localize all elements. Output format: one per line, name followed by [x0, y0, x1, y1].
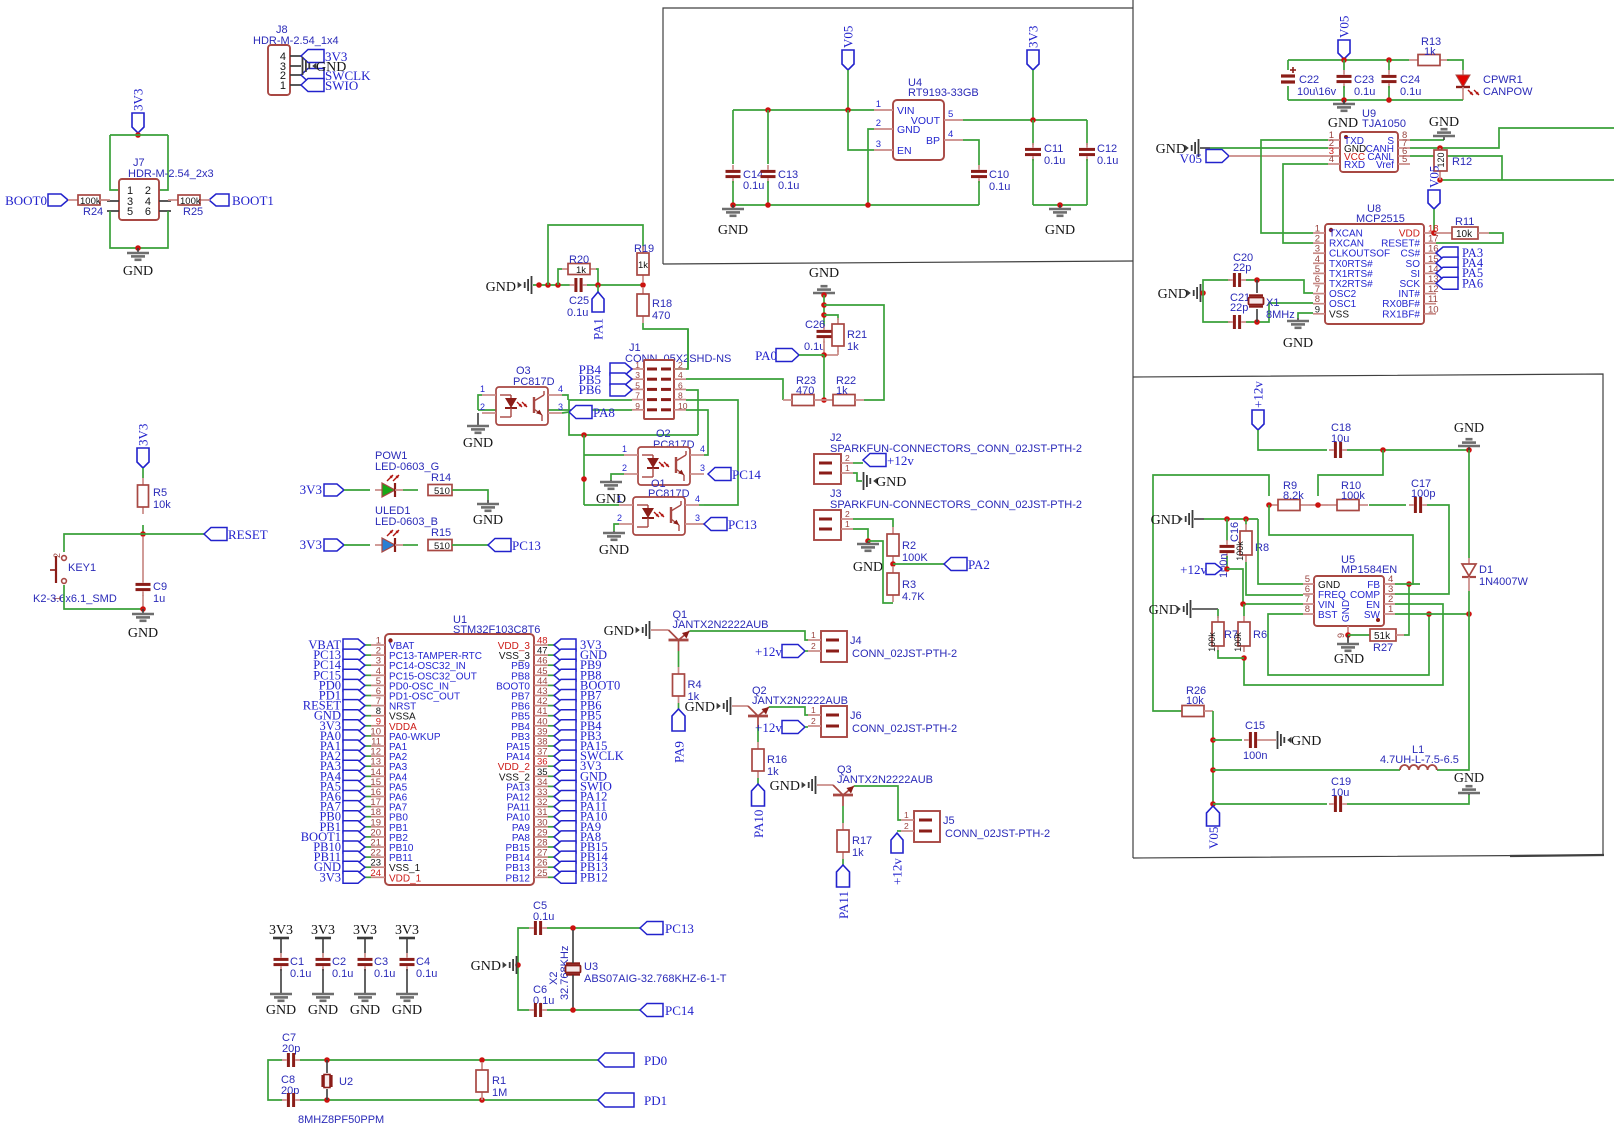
ground at C19: [1454, 771, 1484, 795]
svg-text:PA8: PA8: [593, 405, 615, 420]
wire FB right: [1395, 583, 1420, 585]
wire: [110, 211, 168, 248]
svg-text:C26: C26: [805, 319, 825, 331]
wire: [824, 315, 838, 320]
svg-text:GND: GND: [486, 280, 516, 295]
capacitor C11 0.1u: [1025, 120, 1065, 205]
svg-text:2: 2: [811, 716, 816, 726]
svg-text:24: 24: [370, 868, 381, 879]
net flag PC13 at R15: [488, 538, 541, 553]
wire +12v to VIN: [1227, 569, 1303, 604]
svg-text:3V3: 3V3: [136, 424, 151, 446]
junction: [765, 202, 771, 208]
net flag PA15 at U1 pin 38: [548, 739, 607, 753]
capacitor C26 0.1u: [804, 319, 832, 353]
wire BST loop: [1268, 614, 1429, 675]
net flag PA6 at U1 pin 16: [320, 790, 371, 804]
capacitor C10 0.1u: [971, 165, 1010, 205]
net flag PB14 at U1 pin 27: [548, 850, 609, 864]
svg-text:V05: V05: [1180, 151, 1202, 166]
svg-text:5: 5: [127, 206, 133, 218]
svg-text:GND: GND: [1454, 771, 1484, 786]
wire FB loop: [1269, 505, 1413, 584]
connector J6 CONN_02JST-PTH-2: [808, 705, 957, 737]
svg-text:1: 1: [811, 630, 816, 640]
svg-text:1: 1: [811, 705, 816, 715]
svg-text:1k: 1k: [767, 766, 779, 778]
power flag 3V3 above J7: [131, 89, 146, 133]
svg-text:51k: 51k: [1374, 631, 1391, 642]
wire R27 to FB: [1404, 584, 1409, 635]
svg-text:PA9: PA9: [672, 741, 687, 763]
ground at Q2 base: [685, 697, 731, 715]
junction: [821, 397, 827, 403]
svg-text:R20: R20: [569, 254, 589, 266]
ground at J8 pin 3: [303, 57, 347, 75]
junction: [1210, 801, 1216, 807]
svg-text:C4: C4: [416, 956, 430, 968]
net flag PA3 at U1 pin 13: [320, 759, 371, 773]
svg-text:GND: GND: [266, 1003, 296, 1018]
svg-text:0.1u: 0.1u: [374, 968, 395, 980]
junction: [821, 312, 827, 318]
diode D1 1N4007W: [1462, 450, 1529, 614]
net flag PD1: [598, 1093, 667, 1108]
net flag PA10 at U1 pin 31: [548, 810, 607, 824]
optocoupler O1 PC817D: [633, 478, 690, 535]
U1 pin 2 PC13-TAMPER-RTC: [371, 646, 482, 663]
U1 pin 37 PA14: [506, 747, 548, 764]
svg-text:2: 2: [480, 402, 485, 412]
junction: [479, 1057, 485, 1063]
net flag PB10 at U1 pin 21: [313, 840, 371, 854]
resistor R14 510: [428, 472, 452, 497]
svg-text:RT9193-33GB: RT9193-33GB: [908, 87, 979, 99]
net flag GND at U1 pin 35: [548, 769, 607, 783]
svg-text:1: 1: [480, 384, 485, 394]
svg-text:PC13: PC13: [512, 538, 541, 553]
wire SW node down to L1: [1437, 614, 1469, 770]
net flag PA6 at U8: [1436, 276, 1483, 290]
ground at crystal X1: [1158, 284, 1201, 302]
junction: [1210, 767, 1216, 773]
ground below C23: [1328, 100, 1358, 131]
wire: [344, 544, 370, 546]
svg-text:1: 1: [845, 519, 850, 529]
capacitor C6 0.1u: [529, 984, 554, 1017]
svg-text:3V3: 3V3: [269, 923, 293, 938]
svg-text:SPARKFUN-CONNECTORS_CONN_02JST: SPARKFUN-CONNECTORS_CONN_02JST-PTH-2: [830, 443, 1082, 455]
ground at C18: [1454, 421, 1484, 450]
svg-text:20p: 20p: [281, 1085, 299, 1097]
wire: [1347, 795, 1469, 804]
U1 pin 48 VDD_3: [498, 636, 548, 653]
svg-text:10k: 10k: [153, 499, 171, 511]
svg-text:470: 470: [796, 385, 814, 397]
net flag 3V3 at U1 pin 36: [548, 759, 602, 773]
svg-text:LED-0603_B: LED-0603_B: [375, 516, 438, 528]
svg-text:4.7K: 4.7K: [902, 591, 925, 603]
wire: [1369, 504, 1406, 506]
wire ground rail: [733, 204, 979, 206]
svg-text:J6: J6: [850, 710, 862, 722]
wire: [584, 454, 624, 456]
wire: [1212, 711, 1214, 804]
ground at O3 pin 2: [463, 413, 493, 451]
svg-text:8: 8: [678, 391, 683, 401]
svg-text:2: 2: [845, 509, 850, 519]
svg-text:GND: GND: [123, 264, 153, 279]
svg-text:BOOT1: BOOT1: [232, 193, 274, 208]
net flag PD0: [598, 1053, 667, 1068]
wire: [452, 490, 488, 500]
svg-text:R12: R12: [1452, 156, 1472, 168]
ground below C9: [128, 609, 158, 641]
svg-text:PC13: PC13: [665, 921, 694, 936]
wire: [699, 504, 704, 506]
svg-text:V05: V05: [841, 26, 856, 48]
svg-text:1k: 1k: [847, 341, 859, 353]
wire from J1 pin 10: [686, 410, 708, 455]
svg-text:Vref: Vref: [1376, 160, 1394, 171]
wire: [344, 489, 370, 491]
junction: [1341, 97, 1347, 103]
svg-text:3: 3: [558, 402, 563, 412]
wire from J1 pin 6: [686, 390, 698, 435]
junction: [479, 1097, 485, 1103]
junction: [1241, 655, 1247, 661]
junction: [536, 282, 542, 288]
wire: [1318, 450, 1383, 496]
resistor R3 4.7K: [887, 566, 925, 603]
svg-text:8MHZ8PF50PPM: 8MHZ8PF50PPM: [298, 1114, 384, 1126]
svg-text:+12v: +12v: [1180, 562, 1207, 577]
junction: [865, 538, 871, 544]
wire: [583, 435, 585, 505]
svg-text:U3: U3: [584, 961, 598, 973]
resistor R6 100k: [1233, 604, 1267, 652]
wire C15 row: [1213, 739, 1242, 741]
net flag SWCLK at J8 pin 2: [301, 68, 371, 83]
U1 pin 8 VSSA: [371, 706, 416, 723]
wire left loop: [1153, 475, 1269, 711]
wire: [478, 395, 482, 410]
wire VIN rail: [733, 109, 874, 111]
junction: [515, 962, 521, 968]
net flag PA12 at U1 pin 33: [548, 790, 607, 804]
svg-text:5: 5: [948, 109, 953, 120]
net flag PA9 at U1 pin 30: [548, 820, 601, 834]
net flag PB13 at U1 pin 26: [548, 860, 608, 874]
resistor R25 100k: [168, 195, 210, 218]
svg-text:GND: GND: [770, 779, 800, 794]
power 3V3 above C4: [395, 923, 419, 953]
svg-text:1k: 1k: [576, 265, 586, 276]
junction: [1466, 611, 1472, 617]
net flag PC14 at U1 pin 3: [313, 658, 371, 672]
optocoupler O2 PC817D: [638, 428, 695, 485]
wire from J1 pin 4 to R23: [686, 379, 783, 400]
svg-text:PA6: PA6: [1462, 276, 1483, 290]
capacitor C4 0.1u: [400, 953, 438, 980]
net flag PA4 at U8: [1436, 256, 1484, 270]
capacitor C16 100n: [1218, 519, 1241, 578]
U1 pin 18 PB0: [370, 807, 408, 824]
resistor R19 1k: [634, 243, 654, 282]
wire: [824, 305, 884, 400]
resistor R24 100k: [68, 195, 110, 218]
U1 pin 15 PA5: [370, 777, 407, 794]
svg-text:1: 1: [876, 99, 881, 110]
svg-text:7: 7: [635, 391, 640, 401]
net flag PC14 at O2 pin 3: [708, 467, 761, 482]
net flag RESET at U1 pin 7: [303, 699, 371, 713]
net flag BOOT1: [209, 193, 274, 208]
svg-text:8: 8: [1305, 604, 1310, 615]
svg-text:R16: R16: [767, 754, 787, 766]
U1 pin 9 VDDA: [371, 716, 417, 733]
junction: [1341, 57, 1347, 63]
net flag PB6 at U1 pin 42: [548, 699, 602, 713]
U1 pin 33 PA12: [506, 787, 548, 804]
svg-text:C10: C10: [989, 169, 1009, 181]
U1 pin 7 NRST: [371, 696, 416, 713]
svg-text:PD0: PD0: [644, 1053, 667, 1068]
wire: [853, 529, 868, 541]
capacitor C7 20p: [282, 1032, 300, 1067]
LED ULED1 LED-0603_B: [375, 505, 438, 552]
svg-text:GND: GND: [1151, 513, 1181, 528]
resistor R7 100k: [1207, 609, 1238, 652]
wire: [1246, 280, 1313, 293]
svg-text:2: 2: [876, 118, 881, 129]
svg-text:8.2k: 8.2k: [1283, 490, 1304, 502]
net flag 3V3 at J8 pin 4: [301, 49, 347, 64]
junction: [730, 202, 736, 208]
wire: [1246, 303, 1313, 322]
net flag +12v at J4 pin 2: [755, 644, 808, 659]
wire: [159, 135, 168, 190]
net flag PA5 at U1 pin 15: [320, 779, 371, 793]
svg-text:R3: R3: [902, 579, 916, 591]
svg-text:C24: C24: [1400, 74, 1420, 86]
svg-text:4: 4: [1329, 154, 1334, 165]
net flag PA5 at U8: [1436, 266, 1483, 280]
wire: [1218, 650, 1244, 658]
net flag PA10: [751, 778, 766, 838]
resistor R9 8.2k: [1269, 480, 1328, 511]
power flag V05 above CAN rail: [1337, 16, 1352, 59]
U1 pin 38 PA15: [506, 737, 548, 754]
net flag PC13 at U1 pin 2: [313, 648, 371, 662]
svg-text:BOOT0: BOOT0: [5, 193, 47, 208]
svg-text:8MHz: 8MHz: [1266, 309, 1295, 321]
wire R11 to RESET#: [1436, 233, 1503, 243]
U1 pin 46 PB9: [511, 656, 548, 673]
svg-text:J5: J5: [943, 815, 955, 827]
svg-text:0.1u: 0.1u: [1097, 155, 1118, 167]
svg-text:PA10: PA10: [751, 810, 766, 838]
svg-text:PB12: PB12: [580, 870, 608, 884]
U1 pin 43 PB7: [511, 686, 548, 703]
svg-text:4: 4: [558, 384, 563, 394]
O1 pin wires: [617, 494, 704, 524]
svg-text:3: 3: [695, 513, 700, 523]
wire C19 row: [1213, 803, 1327, 805]
inductor L1 4.7UH-L-7.5-6.5: [1380, 744, 1459, 770]
svg-text:100k: 100k: [1235, 541, 1245, 561]
power flag 3V3 above R5: [136, 424, 151, 468]
svg-text:0.1u: 0.1u: [743, 180, 764, 192]
net flag BOOT1 at U1 pin 20: [301, 830, 371, 844]
junction: [1224, 566, 1230, 572]
net flag PB4 at J1 pin 1: [579, 362, 632, 377]
svg-text:JANTX2N2222AUB: JANTX2N2222AUB: [673, 619, 769, 631]
wire: [64, 585, 143, 609]
wire: [596, 269, 598, 285]
junction: [324, 1057, 330, 1063]
net flag PB11 at U1 pin 22: [314, 850, 371, 864]
ground below J7: [123, 248, 153, 279]
junction: [1315, 502, 1321, 508]
wire: [853, 462, 863, 464]
svg-text:0.1u: 0.1u: [1400, 86, 1421, 98]
svg-text:100n: 100n: [1218, 554, 1230, 578]
resistor R8 100k: [1235, 519, 1269, 562]
ground at R20 row: [486, 276, 532, 295]
wire: [1347, 449, 1469, 451]
wire: [99, 199, 107, 201]
junction: [1266, 502, 1272, 508]
svg-text:D1: D1: [1479, 564, 1493, 576]
net flag PC13 at O1 pin 3: [704, 517, 757, 532]
resistor R20 1k: [562, 254, 596, 276]
resistor R21 1k: [832, 318, 867, 353]
IC U5 MP1584EN: [1303, 554, 1397, 638]
capacitor C13 0.1u: [761, 110, 800, 205]
svg-text:470: 470: [652, 310, 670, 322]
svg-text:+12v: +12v: [755, 644, 782, 659]
svg-text:0.1u: 0.1u: [804, 341, 825, 353]
ground below C14: [718, 205, 748, 238]
junction: [140, 531, 146, 537]
net flag 3V3 at POW1: [300, 482, 344, 497]
resistor R27 51k: [1348, 629, 1404, 654]
svg-text:PC14: PC14: [665, 1003, 694, 1018]
wire: [587, 284, 643, 286]
svg-text:GND: GND: [1334, 652, 1364, 667]
svg-text:3V3: 3V3: [319, 870, 341, 884]
svg-text:120: 120: [1436, 152, 1446, 167]
svg-text:KEY1: KEY1: [68, 562, 96, 574]
svg-text:100k: 100k: [1207, 632, 1217, 652]
svg-text:100k: 100k: [1233, 632, 1243, 652]
svg-text:GND: GND: [1158, 287, 1188, 302]
svg-text:PA1: PA1: [591, 318, 606, 340]
svg-text:R17: R17: [852, 835, 872, 847]
svg-text:PC14: PC14: [732, 467, 761, 482]
wire: [1204, 518, 1258, 520]
svg-text:0.1u: 0.1u: [290, 968, 311, 980]
wire: [799, 354, 824, 356]
svg-text:GND: GND: [128, 626, 158, 641]
ground at J2 pin 1: [864, 472, 907, 490]
wire: [143, 533, 204, 535]
net flag RESET: [204, 527, 268, 542]
power flag PA1 below: [591, 285, 606, 340]
svg-text:CONN_02JST-PTH-2: CONN_02JST-PTH-2: [852, 723, 957, 735]
svg-text:10u\16v: 10u\16v: [1297, 86, 1337, 98]
svg-text:10k: 10k: [1186, 695, 1204, 707]
resistor R23 470: [783, 375, 833, 406]
net flag PB4 at U1 pin 40: [548, 719, 602, 733]
power 3V3 above C3: [353, 923, 377, 953]
net flag PB3 at U1 pin 39: [548, 729, 602, 743]
svg-text:3V3: 3V3: [1026, 26, 1041, 48]
junction: [845, 107, 851, 113]
svg-text:2: 2: [52, 553, 62, 558]
svg-text:1k: 1k: [1424, 46, 1436, 58]
capacitor C19 10u: [1329, 776, 1351, 812]
net flag PB1 at U1 pin 19: [319, 820, 371, 834]
svg-text:CPWR1: CPWR1: [1483, 74, 1523, 86]
svg-text:GND: GND: [1341, 600, 1352, 622]
net flag PC15 at U1 pin 4: [313, 668, 371, 682]
svg-text:3: 3: [700, 463, 705, 473]
transistor Q2 JANTX2N2222AUB: [732, 685, 848, 727]
capacitor C17 100p: [1409, 478, 1435, 513]
svg-text:3: 3: [876, 139, 881, 150]
junction: [135, 132, 141, 138]
power flag +12v at C16: [1180, 562, 1222, 577]
net flag PA2 at U1 pin 12: [320, 749, 371, 763]
svg-text:1: 1: [617, 494, 622, 504]
svg-text:GND: GND: [718, 223, 748, 238]
U1 pin 5 PD0-OSC_IN: [371, 676, 449, 693]
svg-text:GND: GND: [392, 1003, 422, 1018]
wire from J1 pin 9 to PA8: [478, 409, 632, 411]
junction: [1386, 97, 1392, 103]
wire bottom rail: [1288, 99, 1463, 101]
resistor R17 1k: [837, 806, 872, 859]
junction: [1437, 145, 1443, 151]
capacitor C8 20p: [281, 1074, 300, 1107]
net flag GND at U1 pin 8: [314, 709, 371, 723]
junction: [1386, 57, 1392, 63]
svg-text:C3: C3: [374, 956, 388, 968]
wire: [142, 525, 144, 534]
svg-text:R4: R4: [688, 679, 702, 691]
svg-text:R8: R8: [1255, 542, 1269, 554]
junction: [765, 107, 771, 113]
capacitor C15 100n: [1243, 720, 1267, 762]
resistor R22 1k: [833, 375, 864, 406]
ground after R14: [473, 500, 503, 528]
svg-text:4: 4: [948, 129, 953, 140]
svg-text:EN: EN: [897, 145, 912, 157]
junction: [140, 606, 146, 612]
svg-text:9: 9: [1315, 304, 1320, 315]
ground at Q1 base: [604, 621, 650, 639]
svg-text:22p: 22p: [1233, 262, 1251, 274]
U1 pin 12 PA2: [370, 747, 407, 764]
svg-text:GND: GND: [1045, 223, 1075, 238]
power flag V05 bottom: [1206, 806, 1221, 849]
wire: [823, 341, 825, 355]
svg-text:STM32F103C8T6: STM32F103C8T6: [453, 624, 540, 636]
resistor R10 100k: [1328, 480, 1368, 511]
ground at C15: [1278, 731, 1322, 749]
